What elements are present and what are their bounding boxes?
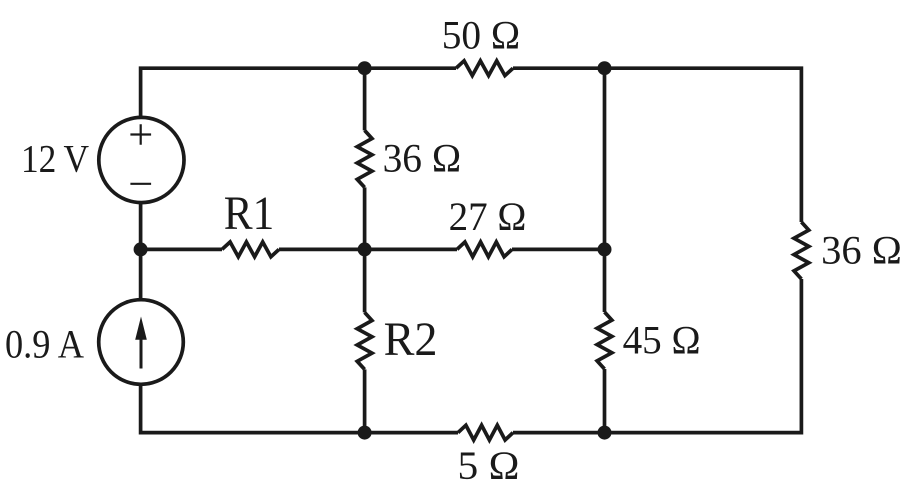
wire mid-center: R1 to 27-ohm [279,248,457,252]
resistor 36 ohm (far right) [794,222,809,279]
wire mid-rail-middle: 36-ohm down to middle wire and to R2 [363,187,367,312]
voltage source V1 circle (12 V) [99,117,184,202]
svg-text:27 Ω: 27 Ω [449,194,527,239]
wire mid-left: left rail to R1 [141,248,222,252]
current source arrow head [135,317,147,340]
wire bottom-left: 5-ohm left, up to current source [141,386,458,433]
current source I1 circle (0.9 A) [99,300,184,385]
current source arrow shaft [140,332,143,369]
resistor R2 [357,312,372,369]
resistor R1 [222,242,279,257]
wire top-right: 50-ohm to right rail, down to 36-ohm [513,68,801,222]
svg-text:R1: R1 [224,187,274,240]
svg-text:R2: R2 [384,313,438,366]
wire top-left: from 12V source top up and right to 50-ohm [141,68,456,117]
junction dot bottom-rightmid [598,426,612,440]
plus sign inside voltage source [130,124,151,145]
wire right-mid-rail-top: top wire down to middle wire and 45-ohm [603,68,607,312]
resistor 45 ohm [597,312,612,369]
resistor 50 ohm (top) [456,61,513,76]
wire mid-right: 27-ohm to right-mid rail [512,248,605,252]
resistor 5 ohm (bottom) [458,425,513,440]
svg-text:0.9 A: 0.9 A [5,322,84,367]
junction dot mid-rightmid [598,242,612,256]
wire right-bottom: 36-ohm down, left along bottom to 5-ohm [513,279,801,433]
junction dot bottom-mid [358,426,372,440]
junction dot top-mid [358,61,372,75]
svg-text:45 Ω: 45 Ω [623,318,701,363]
svg-text:50 Ω: 50 Ω [442,12,521,57]
wire right-mid-rail-bottom: 45-ohm down to bottom wire [603,369,607,433]
wire left-mid: current source top to 12V source bottom [139,204,143,300]
junction dot mid-mid [358,242,372,256]
svg-text:36 Ω: 36 Ω [821,228,902,273]
resistor 27 ohm [457,242,512,257]
wire mid-rail-top: top wire down to 36-ohm [363,68,367,130]
resistor 36 ohm (middle) [357,130,372,187]
svg-text:5 Ω: 5 Ω [458,443,520,488]
junction dot mid-left [134,242,148,256]
junction dot top-rightmid [598,61,612,75]
minus sign inside voltage source [130,183,151,185]
svg-text:36 Ω: 36 Ω [383,136,462,181]
svg-text:12 V: 12 V [21,138,89,181]
wire mid-rail-bottom: R2 down to bottom wire [363,369,367,432]
